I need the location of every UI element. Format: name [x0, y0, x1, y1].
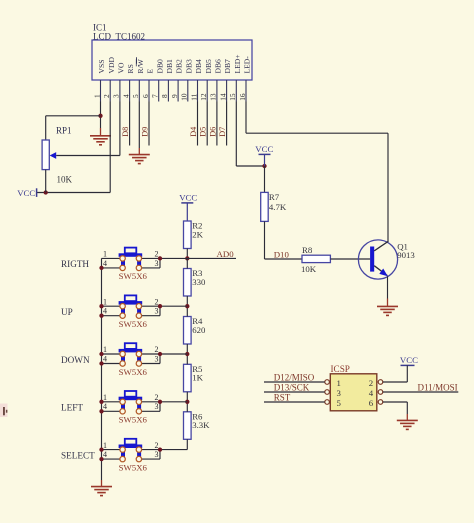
svg-text:2: 2	[369, 378, 373, 388]
svg-text:LED-: LED-	[243, 56, 252, 74]
svg-text:SW5X6: SW5X6	[119, 367, 148, 377]
svg-text:D12/MISO: D12/MISO	[274, 373, 315, 383]
svg-text:VCC: VCC	[17, 188, 35, 198]
svg-text:3.3K: 3.3K	[192, 420, 210, 430]
svg-text:VCC: VCC	[400, 355, 418, 365]
svg-text:E: E	[146, 69, 155, 74]
svg-text:DB0: DB0	[155, 59, 164, 74]
svg-text:RS: RS	[126, 64, 135, 73]
svg-text:2: 2	[155, 250, 159, 259]
svg-text:LEFT: LEFT	[61, 403, 83, 413]
svg-text:3: 3	[112, 94, 121, 98]
svg-text:DB3: DB3	[184, 59, 193, 74]
svg-text:VCC: VCC	[255, 144, 273, 154]
svg-text:DB5: DB5	[204, 59, 213, 74]
svg-text:11: 11	[189, 93, 198, 100]
svg-text:D13/SCK: D13/SCK	[274, 383, 310, 393]
svg-text:LED+: LED+	[233, 54, 242, 73]
svg-text:DB4: DB4	[194, 59, 203, 74]
svg-text:4.7K: 4.7K	[269, 202, 287, 212]
svg-text:1: 1	[103, 441, 107, 450]
svg-text:D9: D9	[140, 127, 149, 137]
svg-text:R8: R8	[302, 245, 313, 255]
svg-text:2: 2	[155, 297, 159, 306]
svg-text:ICSP: ICSP	[331, 364, 350, 374]
svg-text:D11/MOSI: D11/MOSI	[418, 383, 458, 393]
svg-text:RST: RST	[274, 393, 291, 403]
svg-text:4: 4	[103, 450, 107, 459]
svg-text:13: 13	[209, 93, 218, 101]
svg-text:6: 6	[369, 398, 374, 408]
svg-text:1: 1	[103, 297, 107, 306]
svg-text:9013: 9013	[397, 250, 415, 260]
svg-text:5: 5	[337, 398, 342, 408]
svg-text:VDD: VDD	[107, 57, 116, 74]
svg-text:SW5X6: SW5X6	[119, 319, 148, 329]
svg-text:1: 1	[103, 393, 107, 402]
svg-text:2: 2	[155, 393, 159, 402]
svg-text:3: 3	[155, 450, 159, 459]
svg-text:620: 620	[192, 325, 206, 335]
svg-text:VCC: VCC	[179, 193, 197, 203]
svg-text:16: 16	[238, 93, 247, 101]
svg-text:R/W: R/W	[136, 58, 145, 73]
svg-text:RIGTH: RIGTH	[61, 259, 89, 269]
svg-text:3: 3	[155, 402, 159, 411]
svg-text:4: 4	[103, 354, 107, 363]
svg-text:2: 2	[102, 94, 111, 98]
svg-text:SW5X6: SW5X6	[119, 462, 148, 472]
svg-text:10: 10	[180, 93, 189, 101]
svg-text:4: 4	[121, 94, 130, 98]
svg-text:4: 4	[369, 388, 374, 398]
svg-text:D6: D6	[208, 127, 217, 137]
svg-text:1: 1	[103, 250, 107, 259]
svg-text:AD0: AD0	[217, 249, 235, 259]
svg-text:1: 1	[92, 94, 101, 98]
svg-text:3: 3	[155, 354, 159, 363]
svg-text:RP1: RP1	[56, 126, 72, 136]
svg-text:D10: D10	[274, 250, 290, 260]
svg-text:4: 4	[103, 307, 107, 316]
svg-text:10K: 10K	[301, 264, 317, 274]
svg-text:10K: 10K	[57, 175, 73, 185]
svg-text:SW5X6: SW5X6	[119, 415, 148, 425]
svg-text:8: 8	[160, 94, 169, 98]
svg-text:4: 4	[103, 402, 107, 411]
svg-text:1K: 1K	[192, 373, 203, 383]
svg-text:LCD TC1602: LCD TC1602	[93, 31, 145, 41]
svg-text:1: 1	[337, 378, 341, 388]
svg-text:3: 3	[155, 307, 159, 316]
svg-text:2K: 2K	[192, 229, 203, 239]
svg-text:15: 15	[228, 93, 237, 101]
svg-text:D7: D7	[218, 127, 227, 137]
svg-text:D8: D8	[121, 127, 130, 137]
svg-text:6: 6	[141, 94, 150, 98]
svg-text:12: 12	[199, 93, 208, 101]
svg-text:DB6: DB6	[214, 59, 223, 74]
svg-text:5: 5	[131, 94, 140, 98]
svg-text:D4: D4	[189, 127, 198, 137]
svg-text:DB7: DB7	[223, 59, 232, 74]
svg-text:3: 3	[337, 388, 342, 398]
svg-text:7: 7	[151, 94, 160, 98]
svg-text:DOWN: DOWN	[61, 355, 90, 365]
svg-text:DB2: DB2	[175, 59, 184, 74]
svg-text:VO: VO	[117, 62, 126, 73]
svg-text:1: 1	[103, 345, 107, 354]
svg-text:R7: R7	[269, 192, 280, 202]
svg-text:9: 9	[170, 94, 179, 98]
svg-text:SW5X6: SW5X6	[119, 271, 148, 281]
svg-text:2: 2	[155, 345, 159, 354]
svg-text:4: 4	[103, 259, 107, 268]
svg-text:UP: UP	[61, 307, 73, 317]
svg-text:VSS: VSS	[97, 60, 106, 74]
svg-text:SELECT: SELECT	[61, 450, 95, 460]
svg-text:330: 330	[192, 277, 206, 287]
svg-text:3: 3	[155, 259, 159, 268]
svg-text:14: 14	[218, 93, 227, 101]
svg-text:D5: D5	[199, 127, 208, 137]
svg-text:DB1: DB1	[165, 59, 174, 74]
svg-text:2: 2	[155, 441, 159, 450]
